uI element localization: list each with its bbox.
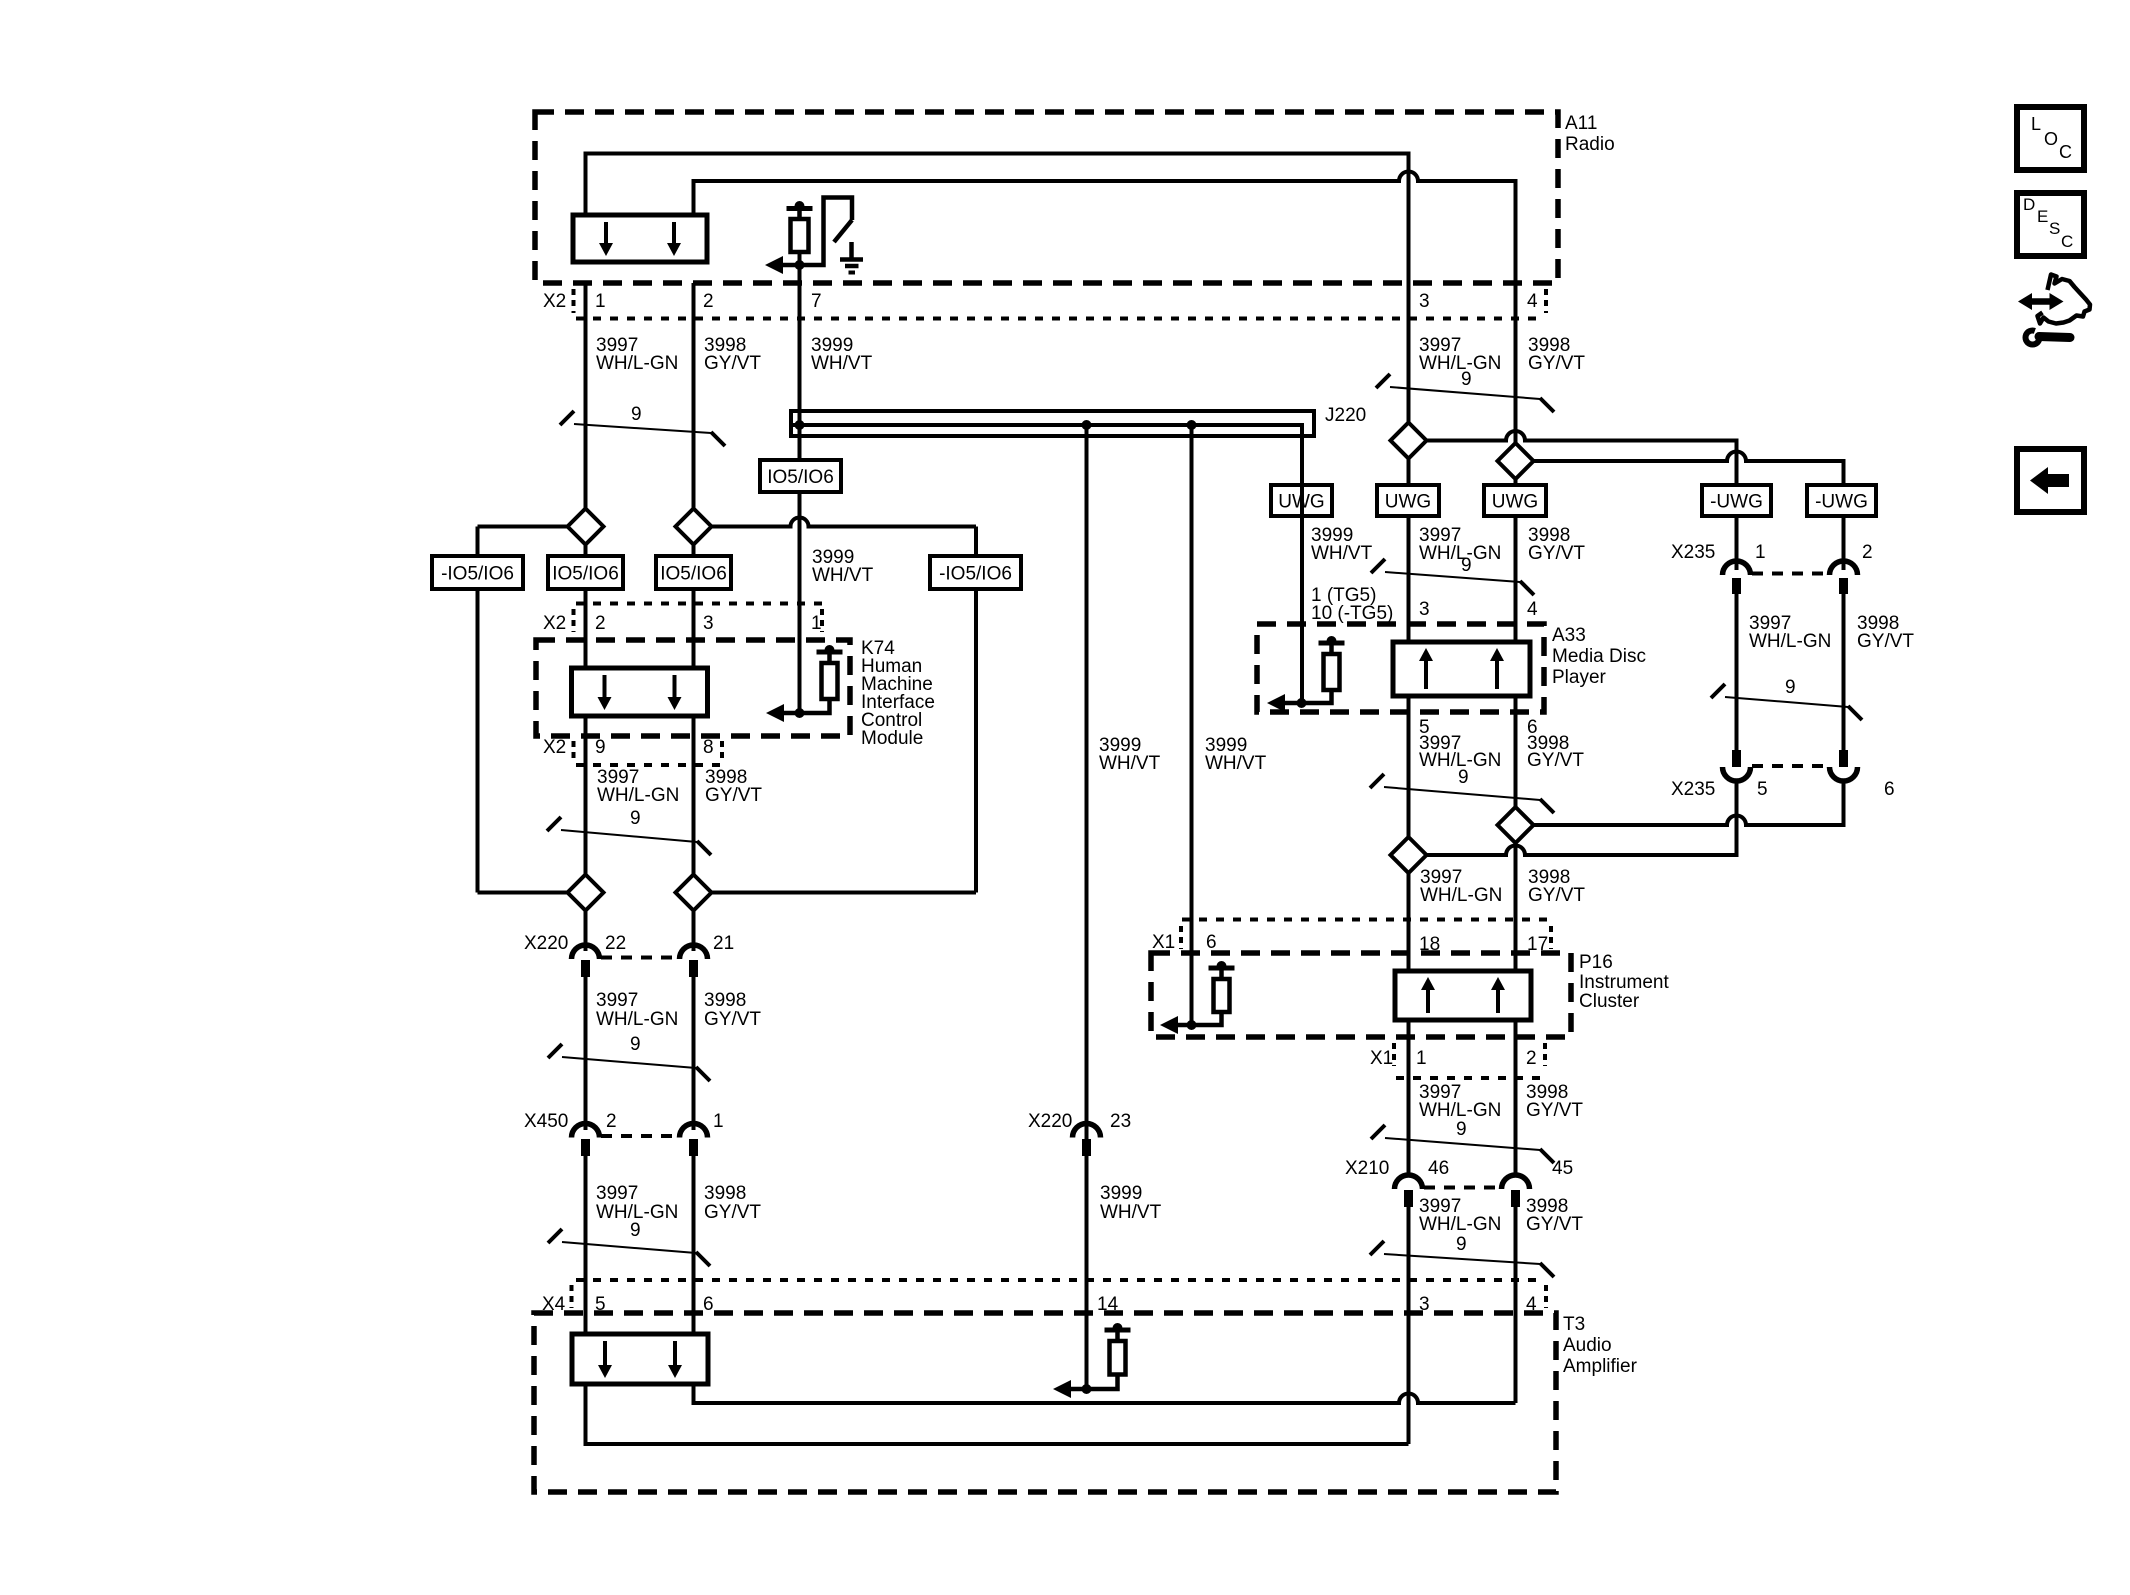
pin 6 label (X4) [703,1294,714,1315]
svg-text:4: 4 [1527,291,1538,312]
connector X2 radio band fine-dashed line [576,317,1544,321]
svg-text:9: 9 [1461,369,1472,390]
wire 3997 (X210 to T3 pin 3) [1407,1205,1411,1444]
pin 14 label (X4) [1097,1294,1119,1315]
svg-text:GY/VT: GY/VT [1527,750,1584,771]
svg-text:9: 9 [1456,1119,1467,1140]
wire 3998 GY/VT (X235-2 to X235-6) [1842,592,1846,750]
svg-text:Instrument: Instrument [1579,972,1669,993]
svg-text:GY/VT: GY/VT [704,353,761,374]
connector X1 P16-bottom left stub [1392,1043,1396,1066]
splice diamond on 3997 left lower [568,875,604,911]
pin 1 label (P16 X1) [1416,1048,1427,1069]
pin 6 label (X1) [1206,932,1217,953]
svg-text:3: 3 [1419,599,1430,620]
wire T3 internal 3998 return with hop over 3997 [694,1384,1516,1403]
pin 2 label (K74 X2) [595,613,606,634]
net label box -IO5/IO6 far left [432,556,523,589]
connector X1 P16-bottom band fine-dashed line [1396,1076,1545,1080]
pin 3 label (A33) [1419,599,1430,620]
svg-text:WH/VT: WH/VT [1205,753,1267,774]
svg-text:2: 2 [1862,542,1873,563]
wire label 3998 GY/VT below X2-4 [1528,335,1585,374]
label X450 [524,1111,568,1132]
twisted pair symbol 9 (below X220) [548,1034,710,1081]
wire label 3997 WH/L-GN below X220 [596,990,678,1030]
svg-text:X2: X2 [543,613,566,634]
splice diamond on 3998 right lower [1498,807,1534,843]
svg-text:GY/VT: GY/VT [1528,353,1585,374]
wire label 3997 WH/L-GN below K74 [597,767,679,806]
wire branch rail upper-right with hop over 3999 [712,518,977,527]
connector X220-21 socket [680,945,708,959]
svg-text:2: 2 [595,613,606,634]
label X210 [1345,1158,1389,1179]
svg-text:-UWG: -UWG [1815,492,1868,513]
junction dot J220 at 3999 cluster branch [1187,420,1197,430]
wire label 3999 WH/VT below UWG [1311,525,1373,564]
wire label 3999 WH/VT below X220-23 [1100,1183,1162,1223]
wire 3998 (diamond to X220-21) [692,910,696,951]
svg-text:6: 6 [703,1294,714,1315]
wire label 3997 WH/L-GN below X2-1 [596,335,678,374]
splice diamond on 3998 left lower [676,875,712,911]
wire label 3998 GY/VT below X450 [704,1183,761,1223]
wire 3998 right (X2-4 down to A33) [1514,283,1518,642]
wire label 3997 WH/L-GN below X210 [1419,1196,1501,1235]
label X2 (radio connector) [543,291,566,312]
icon LOC box [2017,107,2084,170]
svg-text:GY/VT: GY/VT [705,785,762,806]
wire 3997 WH/L-GN left (X2-1 down to K74 area) [584,283,588,893]
twisted pair symbol 9 (X235 pair) [1711,677,1862,720]
component P16 Instrument Cluster dashed outline [1151,953,1571,1037]
svg-text:IO5/IO6: IO5/IO6 [660,564,727,585]
svg-text:3: 3 [703,613,714,634]
wire right branch vertical (-IO5/IO6) [974,527,978,893]
svg-text:9: 9 [630,1220,641,1241]
connector X210-46 socket [1395,1175,1423,1189]
connector X450-1 pin [689,1139,698,1156]
label T3 Audio Amplifier [1563,1314,1638,1377]
net label box UWG on 3997 [1377,485,1439,516]
svg-text:1: 1 [595,291,606,312]
wire X235-6 return to 3998 diamond with hop [1534,779,1844,825]
junction J220 inner bus line [793,425,1302,485]
twisted pair symbol 9 (above A33) [1371,555,1534,595]
svg-text:X210: X210 [1345,1158,1389,1179]
svg-text:Radio: Radio [1565,134,1615,155]
svg-text:2: 2 [703,291,714,312]
wire label 3999 WH/VT middle-right [1205,735,1267,774]
resistor termination in K74 on 3999 [766,645,843,722]
connector block in P16 with two up arrows [1395,971,1531,1020]
wire pin1 label above A33 [1311,585,1393,624]
svg-text:T3: T3 [1563,1314,1585,1335]
pin 23 label [1110,1111,1131,1132]
pin 2 label (X450) [606,1111,617,1132]
svg-text:6: 6 [1206,932,1217,953]
pin 18 label (X1) [1419,934,1440,955]
net label box -IO5/IO6 far right [930,556,1021,589]
twisted pair symbol 9 (below X450) [548,1220,710,1266]
svg-text:10 (-TG5): 10 (-TG5) [1311,603,1393,624]
pin 45 label [1552,1158,1573,1179]
wire label 3998 GY/VT below P16 [1526,1082,1583,1121]
svg-text:X220: X220 [1028,1111,1072,1132]
svg-text:9: 9 [1785,677,1796,698]
connector X4 right stub [1544,1285,1548,1308]
pin 3 label (X2) [1419,291,1430,312]
svg-text:9: 9 [595,737,606,758]
svg-text:22: 22 [605,933,626,954]
connector X210-45 pin [1511,1190,1520,1207]
svg-text:Media Disc: Media Disc [1552,646,1646,667]
wire label 3997 WH/L-GN below P16 [1419,1082,1501,1121]
label P16 Instrument Cluster [1579,952,1669,1012]
svg-text:WH/L-GN: WH/L-GN [1419,1214,1501,1235]
svg-text:9: 9 [1456,1234,1467,1255]
wire T3 internal 3997 return [586,1384,1409,1444]
connector X450-2 pin [581,1139,590,1156]
pin 4 label (A33) [1527,599,1538,620]
connector X2 K74-top band fine-dashed line [576,602,822,606]
svg-text:GY/VT: GY/VT [1526,1100,1583,1121]
pin 5 label (X4) [595,1294,606,1315]
svg-text:WH/L-GN: WH/L-GN [596,1009,678,1030]
pin 1 label (X450) [713,1111,724,1132]
wire label 3997 WH/L-GN below A33 [1419,733,1501,771]
splice diamond on 3997 right upper [1391,423,1427,459]
junction dot J220 at 3999 radio branch [795,420,805,430]
wire left branch vertical (-IO5/IO6) [476,527,480,893]
wire label 3998 GY/VT at X235 [1857,613,1914,652]
wire label 3998 GY/VT below K74 [705,767,762,806]
connector block in K74 with two down arrows [572,668,708,716]
svg-text:-IO5/IO6: -IO5/IO6 [939,564,1012,585]
pin 9 label (K74 X2) [595,737,606,758]
svg-text:GY/VT: GY/VT [1526,1214,1583,1235]
connector X2 K74-bottom left stub [572,741,576,763]
connector X235-6 pin [1839,750,1848,767]
connector block in A33 with two up arrows [1393,642,1530,696]
svg-text:WH/L-GN: WH/L-GN [1419,1100,1501,1121]
svg-text:45: 45 [1552,1158,1573,1179]
label X4 [542,1294,566,1315]
svg-text:X1: X1 [1152,932,1175,953]
component K74 HMI Control Module dashed outline [536,640,850,736]
component A11 Radio dashed outline [535,112,1558,283]
svg-text:WH/VT: WH/VT [812,565,874,586]
pin 8 label (K74 X2) [703,737,714,758]
svg-text:UWG: UWG [1492,492,1538,513]
svg-text:X2: X2 [543,291,566,312]
svg-text:WH/VT: WH/VT [1100,1202,1162,1223]
svg-text:1: 1 [1755,542,1766,563]
svg-text:2: 2 [606,1111,617,1132]
wire 3997 (X450 to T3 X4-5) [584,1154,588,1334]
resistor termination in A33 [1267,636,1345,712]
svg-text:4: 4 [1527,599,1538,620]
connector X4 T3 band fine-dashed line [576,1278,1545,1282]
connector X220-22 pin [581,960,590,977]
svg-text:L: L [2031,114,2041,134]
connector X1 P16-top band fine-dashed line [1182,918,1551,922]
connector X235-2 pin [1839,578,1848,594]
label X2 (K74 top) [543,613,566,634]
pin 5 label (X235) [1757,779,1768,800]
pin 1 label (X2) [595,291,606,312]
svg-text:E: E [2037,207,2048,226]
label X220 left [524,933,568,954]
wire branch rail lower-left [478,891,568,895]
connector X235-1 pin [1732,578,1741,594]
pin 21 label [713,933,734,954]
svg-text:-IO5/IO6: -IO5/IO6 [441,564,514,585]
connector X4 left stub [570,1285,574,1308]
svg-text:WH/VT: WH/VT [1099,753,1161,774]
svg-text:3998: 3998 [704,990,746,1011]
connector block in T3 with two down arrows [572,1334,708,1384]
connector X235-1 socket [1723,561,1751,575]
wire label 3998 GY/VT below X220 [704,990,761,1030]
ground symbol in radio [840,242,863,273]
icon wrench [2023,325,2071,348]
svg-text:7: 7 [811,291,822,312]
junction dot J220 at 3999 amplifier branch [1082,420,1092,430]
wire label 3999 WH/VT middle-left [1099,735,1161,774]
connector X1 P16-top right stub [1549,926,1553,949]
label X1 (P16 bottom) [1370,1048,1393,1069]
wire 3998 GY/VT left (X2-2 down to K74 area) [692,283,696,893]
pin 2 label (X235) [1862,542,1873,563]
svg-text:9: 9 [630,1034,641,1055]
connector X210-46 pin [1404,1190,1413,1207]
svg-text:WH/VT: WH/VT [811,353,873,374]
label X2 (K74 bottom) [543,737,566,758]
svg-text:S: S [2049,219,2060,238]
svg-text:WH/VT: WH/VT [1311,543,1373,564]
connector X2 K74-top left stub [572,609,576,632]
svg-text:1: 1 [811,613,822,634]
wire label 3997 WH/L-GN at X235 [1749,613,1831,652]
connector X220 dashed link [601,956,678,960]
connector X235 lower dashed link [1752,764,1828,768]
wire 3999 inside radio (pin 7 up to junction) [798,210,802,283]
pin 5 label (A33) [1419,717,1430,738]
wire branch rail upper-left [478,525,568,529]
connector X450-1 socket [680,1124,708,1138]
net label box IO5/IO6 on 3997 [548,556,623,589]
svg-text:Amplifier: Amplifier [1563,1356,1638,1377]
wire label 3998 GY/VT below A33 [1527,733,1584,771]
junction J220 bus bar rectangle [791,411,1314,436]
svg-text:GY/VT: GY/VT [704,1009,761,1030]
svg-text:WH/L-GN: WH/L-GN [596,353,678,374]
svg-text:P16: P16 [1579,952,1613,973]
svg-text:6: 6 [1884,779,1895,800]
component T3 Audio Amplifier dashed outline [534,1313,1556,1492]
svg-text:O: O [2044,129,2058,149]
resistor termination in T3 on 3999 [1053,1323,1131,1398]
wire 3998 (A33 pin6 down) [1514,696,1518,971]
net label box -UWG on X235-1 wire [1702,485,1771,516]
connector X235 upper dashed link [1752,572,1828,576]
splice diamond on 3998 left upper [676,509,712,545]
svg-text:Player: Player [1552,667,1607,688]
svg-text:8: 8 [703,737,714,758]
label X235 upper [1671,542,1715,563]
svg-text:WH/L-GN: WH/L-GN [597,785,679,806]
wire 3997 (X220 to X450) [584,975,588,1130]
svg-text:C: C [2061,232,2073,251]
pin 46 label [1428,1158,1449,1179]
connector X235-5 pin [1732,750,1741,767]
label A11 Radio [1565,113,1615,155]
svg-text:46: 46 [1428,1158,1449,1179]
wire label 3999 WH/VT above K74 [812,547,874,586]
svg-text:A33: A33 [1552,625,1586,646]
connector X2 radio left stub [572,289,576,313]
connector X235-5 socket [1723,767,1751,781]
svg-text:9: 9 [630,808,641,829]
svg-text:21: 21 [713,933,734,954]
svg-text:2: 2 [1526,1048,1537,1069]
pin 17 label (X1) [1527,934,1548,955]
svg-text:GY/VT: GY/VT [1857,631,1914,652]
pin 7 label (X2) [811,291,822,312]
connector X210 dashed link [1424,1186,1500,1190]
net label box UWG on 3999 [1271,485,1332,516]
wire 3998 (X450 to T3 X4-6) [692,1154,696,1334]
twisted pair symbol 9 (below P16) [1371,1119,1554,1163]
icon DESC box [2017,193,2084,256]
icon data-link arrow symbol [2018,275,2090,324]
pin 1 label (K74 X2) [811,613,822,634]
wire label 3997 WH/L-GN below UWG [1419,525,1501,564]
twisted pair symbol 9 (left pair below X2) [560,404,725,446]
wire 3999 WH/VT (J220 to P16 X1-6) [1190,425,1194,1025]
wire internal radio bus upper (pin1 to pin3) [586,154,1409,284]
svg-text:9: 9 [1458,767,1469,788]
wire 3998 (P16 X1-2 down) [1514,1020,1518,1177]
wire label 3997 WH/L-GN below X2-3 [1419,335,1501,374]
connector X220-22 socket [572,945,600,959]
svg-text:UWG: UWG [1385,492,1431,513]
label A33 Media Disc Player [1552,625,1646,688]
wire 3999 WH/VT (X2-7 down to K74 pin 1) [798,283,802,713]
svg-text:Cluster: Cluster [1579,991,1640,1012]
connector block in radio with two down arrows [573,215,707,262]
wire internal radio bus lower (pin2 to pin4) with hop [694,172,1516,284]
pin 6 label (X235) [1884,779,1895,800]
svg-text:-UWG: -UWG [1710,492,1763,513]
pin 2 label (X2) [703,291,714,312]
icon back-arrow box [2017,449,2084,512]
connector X2 K74-bottom band fine-dashed line [576,763,722,767]
wire 3998 (X210 to T3 pin 4) [1514,1205,1518,1403]
svg-text:1: 1 [713,1111,724,1132]
connector X450-2 socket [572,1124,600,1138]
wire 3999 WH/VT (J220 to X220-23 to T3 pin 14) [1085,425,1089,1389]
svg-text:3997: 3997 [596,1183,638,1204]
connector X2 K74-top right stub [820,609,824,632]
wire X235-1 drop (-UWG to socket) [1735,516,1739,570]
svg-text:9: 9 [1461,555,1472,576]
wire 3997 (diamond to X220-22) [584,910,588,951]
wire branch 3997 to -UWG with hop over 3998 [1427,431,1737,485]
wire 3997 right (X2-3 down to A33) [1407,283,1411,642]
svg-text:23: 23 [1110,1111,1131,1132]
net label box -UWG on X235-2 wire [1807,485,1876,516]
connector X2 K74-bottom right stub [720,741,724,763]
pin 3 label (X4) [1419,1294,1430,1315]
splice diamond on 3997 right lower [1391,837,1427,873]
connector X1 P16-top left stub [1179,926,1183,949]
wire 3997 (P16 X1-1 down) [1407,1020,1411,1177]
wire branch rail lower-right [712,891,977,895]
wire X235-2 drop (-UWG to socket) [1842,516,1846,570]
svg-text:3: 3 [1419,291,1430,312]
wire X235-5 return to 3997 diamond with hop [1427,779,1737,855]
component A33 Media Disc Player dashed outline [1257,624,1544,712]
splice diamond on 3998 right upper [1498,443,1534,479]
svg-text:X235: X235 [1671,779,1715,800]
svg-text:D: D [2023,195,2035,214]
svg-text:WH/L-GN: WH/L-GN [1749,631,1831,652]
svg-text:3999: 3999 [1100,1183,1142,1204]
splice diamond on 3997 left upper [568,509,604,545]
svg-text:GY/VT: GY/VT [704,1202,761,1223]
wire 3998 (X220 to X450) [692,975,696,1130]
wire label 3997 WH/L-GN below X450 [596,1183,678,1223]
svg-text:IO5/IO6: IO5/IO6 [767,467,834,488]
wire branch 3998 to -UWG with hop over X235-1 wire [1534,452,1844,485]
svg-text:3997: 3997 [596,990,638,1011]
svg-text:X450: X450 [524,1111,568,1132]
connector X450 dashed link [601,1134,678,1138]
net label box IO5/IO6 on 3998 [656,556,731,589]
wire label 3998 GY/VT below X210 [1526,1196,1583,1235]
svg-text:9: 9 [631,404,642,425]
wire label 3998 GY/VT below X2-2 [704,335,761,374]
svg-text:X2: X2 [543,737,566,758]
svg-text:GY/VT: GY/VT [1528,543,1585,564]
label X220 middle [1028,1111,1072,1132]
switch to ground in radio [800,198,853,266]
pin 4 label (X2) [1527,291,1538,312]
connector X220-23 socket [1073,1124,1101,1138]
label X1 (P16 top) [1152,932,1175,953]
svg-text:IO5/IO6: IO5/IO6 [552,564,619,585]
svg-text:5: 5 [1757,779,1768,800]
wire 3999 into A33 [1300,485,1304,703]
net label box IO5/IO6 on 3999 [760,460,841,492]
label X235 lower [1671,779,1715,800]
svg-text:C: C [2059,142,2072,162]
svg-text:Module: Module [861,728,923,749]
svg-text:A11: A11 [1565,113,1597,134]
connector X1 P16-bottom right stub [1543,1043,1547,1066]
pin 1 label (X235) [1755,542,1766,563]
resistor termination in radio on 3999 [765,201,813,274]
svg-text:J220: J220 [1325,405,1366,426]
twisted pair symbol 9 (left pair below K74) [547,808,711,855]
resistor termination in P16 [1160,961,1235,1034]
pin 2 label (P16 X1) [1526,1048,1537,1069]
svg-text:3998: 3998 [704,1183,746,1204]
wire label 3998 GY/VT below UWG [1528,525,1585,564]
